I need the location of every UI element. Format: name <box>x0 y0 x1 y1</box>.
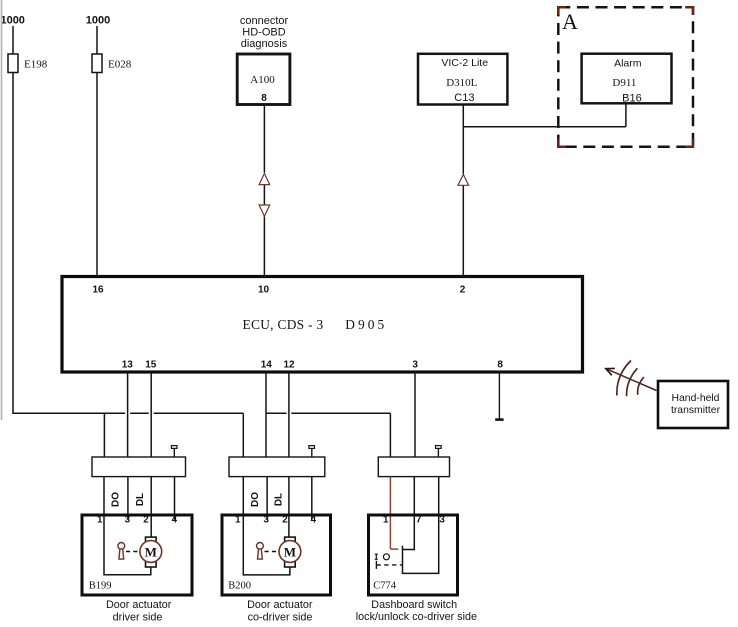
wire E198 feed: down, right along y=413, to bar2 pin1 (gaps hop over pins 13/15 wires) <box>13 73 243 458</box>
motor M (B200) <box>279 537 301 567</box>
inline connector (up triangle on C13 wire) <box>458 174 469 185</box>
svg-text:DL: DL <box>135 493 146 506</box>
dashboard switch C774 <box>369 515 458 595</box>
svg-text:13: 13 <box>122 360 134 371</box>
wire bar3 pin3 into C774 <box>403 477 439 574</box>
svg-text:14: 14 <box>261 360 273 371</box>
wire branch pin 14 to bar3 (hops pin 12 wire) <box>266 413 390 457</box>
svg-text:2: 2 <box>143 515 149 526</box>
svg-text:A: A <box>562 9 578 34</box>
wire VIC-2 C13 to ECU pin 2 <box>462 105 464 278</box>
svg-text:Door actuator: Door actuator <box>247 599 313 611</box>
wire E028 to ECU pin 16 <box>96 73 98 278</box>
radio wave arcs <box>617 361 644 397</box>
wire bar1 pin3 (DO) into B199 <box>127 477 129 520</box>
dashed boundary A <box>558 7 693 147</box>
Alarm unit D911 <box>582 54 672 104</box>
switch position O marker <box>383 554 389 560</box>
caption door actuator co-driver side <box>247 599 313 623</box>
svg-text:12: 12 <box>283 360 295 371</box>
svg-text:10: 10 <box>258 285 270 296</box>
connector A100 HD-OBD diagnosis <box>237 15 290 105</box>
svg-text:E028: E028 <box>108 59 132 71</box>
wire junction drop to connector bar 1 <box>103 413 105 457</box>
svg-text:B200: B200 <box>228 580 251 591</box>
internal wire pin1 to motor bottom (B200) <box>243 515 290 575</box>
antenna arrow of hand-held transmitter <box>606 368 657 390</box>
wire bar2 pin3 (DO) into B200 <box>266 477 268 520</box>
wire bar1 pin1 into B199 <box>103 477 105 515</box>
svg-text:co-driver side: co-driver side <box>248 611 313 623</box>
svg-text:VIC-2 Lite: VIC-2 Lite <box>441 57 488 69</box>
svg-text:8: 8 <box>497 360 503 371</box>
wire bar2 pin4 into B200 <box>311 477 313 520</box>
unconnected stub with cap above bar1 pin 4 <box>171 446 177 457</box>
wire bar1 pin2 (DL) into B199 <box>150 477 152 538</box>
wire bar2 pin1 into B200 <box>242 477 244 515</box>
wire A100 pin 8 to ECU pin 10 <box>263 105 265 278</box>
wire ECU pin 3 to bar3 <box>414 372 416 457</box>
svg-text:3: 3 <box>263 515 269 526</box>
svg-text:DO: DO <box>110 492 121 507</box>
svg-text:4: 4 <box>311 515 317 526</box>
svg-text:DL: DL <box>274 493 285 506</box>
svg-text:8: 8 <box>261 93 267 104</box>
svg-text:Alarm: Alarm <box>614 58 642 70</box>
door actuator co-driver side B200 <box>222 515 331 595</box>
switch position I marker <box>375 554 378 559</box>
svg-text:Door actuator: Door actuator <box>106 599 172 611</box>
switch actuator dashed link <box>376 561 402 569</box>
VIC-2 Lite unit D310L <box>418 54 507 105</box>
svg-text:C774: C774 <box>373 580 397 591</box>
wire bar2 pin2 (DL) into B200 <box>288 477 290 538</box>
svg-text:B199: B199 <box>89 580 112 591</box>
svg-text:1: 1 <box>97 515 103 526</box>
svg-text:M: M <box>284 544 296 559</box>
svg-text:2: 2 <box>282 515 288 526</box>
wire ECU pin 8 with termination cap <box>495 372 503 420</box>
connector bar 3 (dashboard switch) <box>378 457 449 477</box>
svg-text:1: 1 <box>383 515 389 526</box>
wire bar3 pin7 into C774 <box>403 477 415 550</box>
wire bar1 pin4 into B199 <box>174 477 176 520</box>
svg-text:C13: C13 <box>454 92 474 104</box>
svg-text:1: 1 <box>235 515 241 526</box>
svg-text:connector: connector <box>240 15 289 27</box>
unconnected stub with cap above bar2 pin 4 <box>309 446 315 457</box>
wire bar3 pin1 into C774 (brown) <box>390 477 398 549</box>
svg-text:D310L: D310L <box>446 77 477 89</box>
svg-text:Hand-held: Hand-held <box>672 393 720 404</box>
unconnected stub with cap above bar3 <box>436 446 442 457</box>
wire ECU pin 15 to bar1 <box>150 372 152 457</box>
internal wire pin1 to motor bottom (B199) <box>104 515 151 575</box>
connector bar 1 (driver side) <box>92 457 186 477</box>
svg-text:transmitter: transmitter <box>671 405 721 416</box>
dashed mechanical link (B200) <box>265 551 279 553</box>
wire ECU pin 13 to bar1 <box>127 372 129 457</box>
svg-text:3: 3 <box>125 515 131 526</box>
fuse E028 <box>92 54 132 73</box>
svg-text:B16: B16 <box>622 92 642 104</box>
svg-text:D905: D905 <box>345 317 387 332</box>
svg-text:16: 16 <box>92 285 104 296</box>
door actuator driver side B199 <box>82 515 192 595</box>
svg-text:ECU, CDS - 3: ECU, CDS - 3 <box>243 317 324 332</box>
wire ECU pin 14 to bar2 <box>265 372 267 457</box>
wire Alarm B16 joining C13 wire <box>463 103 626 126</box>
svg-text:3: 3 <box>439 515 445 526</box>
wire ECU pin 12 to bar2 <box>288 372 290 457</box>
hand-held transmitter box <box>658 381 728 428</box>
dashed mechanical link (B199) <box>126 551 140 553</box>
key symbol (B200) <box>257 543 264 560</box>
inline connector (female, down triangle) <box>259 205 270 216</box>
svg-text:4: 4 <box>172 515 178 526</box>
svg-text:7: 7 <box>416 515 422 526</box>
svg-text:1000: 1000 <box>86 15 110 27</box>
motor M (B199) <box>140 537 162 567</box>
svg-text:D911: D911 <box>612 77 636 89</box>
svg-text:HD-OBD: HD-OBD <box>242 27 285 39</box>
svg-text:A100: A100 <box>250 74 275 86</box>
svg-text:15: 15 <box>145 360 157 371</box>
svg-text:1000: 1000 <box>0 15 24 27</box>
ECU, CDS-3 D905 <box>62 277 583 373</box>
svg-text:diagnosis: diagnosis <box>241 38 288 50</box>
wire from node 1000 left down to fuse E198 <box>12 26 14 54</box>
svg-text:driver side: driver side <box>113 611 163 623</box>
inline connector (male, up triangle) <box>259 173 270 184</box>
connector bar 2 (co-driver side) <box>229 457 325 477</box>
caption dashboard switch <box>356 599 477 623</box>
svg-text:2: 2 <box>460 285 466 296</box>
caption door actuator driver side <box>106 599 172 623</box>
svg-text:Dashboard switch: Dashboard switch <box>371 599 457 611</box>
svg-text:M: M <box>145 544 157 559</box>
svg-text:E198: E198 <box>24 59 48 71</box>
wire from node 1000 right down to fuse E028 <box>96 26 98 54</box>
page edge line (decorative) <box>1 0 3 420</box>
fuse E198 <box>8 54 48 73</box>
svg-text:lock/unlock co-driver side: lock/unlock co-driver side <box>356 611 477 623</box>
svg-text:3: 3 <box>412 360 418 371</box>
svg-text:DO: DO <box>250 492 261 507</box>
key symbol (B199) <box>118 543 125 560</box>
